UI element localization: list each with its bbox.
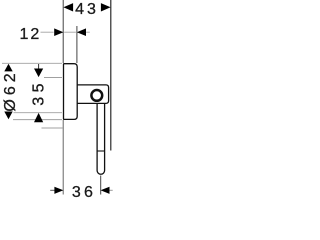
svg-text:43: 43 (75, 1, 99, 18)
extension line plate top (for D62) (2, 62, 62, 64)
wall line (110, 0, 112, 151)
dim 35 arrow up (34, 113, 43, 122)
dim 12 arrow left (54, 28, 63, 36)
dim D62 arrow up (4, 64, 12, 72)
spindle joint line (97, 150, 105, 152)
svg-text:35: 35 (30, 79, 47, 106)
dim 35 lower connector (42, 127, 63, 129)
roll spindle (97, 104, 105, 174)
dim 12 arrow right (77, 28, 86, 36)
dim D62 arrow down (4, 112, 12, 120)
extension line rod axis (for 36) (100, 176, 102, 195)
extension line below plate (left, for 36) (62, 120, 64, 195)
screw head (91, 90, 102, 101)
dim 36 right stub (110, 189, 113, 191)
extension line front face (left, for 43/12) (62, 0, 64, 63)
dim 36 arrow left (54, 187, 63, 194)
svg-text:12: 12 (20, 26, 42, 43)
extension line 35 bottom (14, 112, 63, 114)
dim 12 line (41, 31, 90, 33)
svg-text:36: 36 (72, 184, 96, 200)
dim 35 arrow down (34, 69, 43, 78)
extension line plate rear face (for 12) (76, 26, 78, 63)
dim 35 upper stub (38, 64, 40, 69)
arm / bracket (77, 85, 108, 104)
extension line plate bottom (for D62) (13, 119, 62, 121)
svg-text:Ø62: Ø62 (2, 69, 19, 111)
dim 43 arrow right (101, 3, 111, 11)
extension line 35 top (44, 77, 62, 79)
dim 36 left stub (50, 189, 55, 191)
dim 43 arrow left (63, 3, 73, 11)
dim 36 arrow right (101, 187, 110, 194)
wall plate (side view) (64, 64, 78, 120)
